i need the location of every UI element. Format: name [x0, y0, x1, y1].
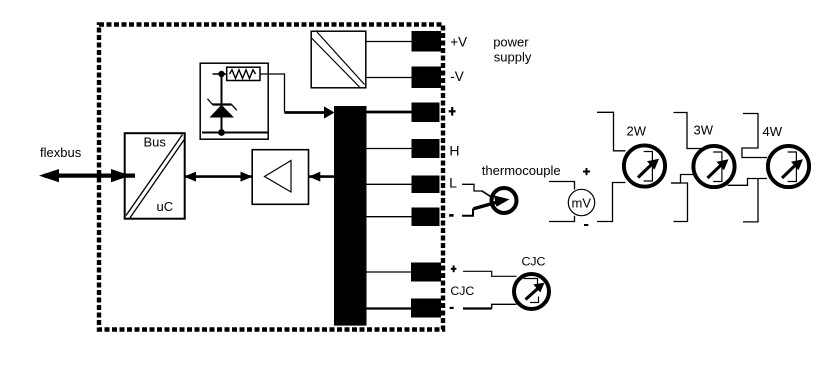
svg-text:H: H	[449, 143, 459, 159]
svg-text:-V: -V	[450, 69, 464, 84]
svg-text:supply: supply	[494, 50, 532, 65]
svg-text:mV: mV	[572, 196, 592, 211]
svg-text:uC: uC	[157, 199, 174, 214]
svg-text:+V: +V	[450, 35, 467, 50]
svg-text:thermocouple: thermocouple	[482, 163, 561, 178]
svg-text:2W: 2W	[627, 124, 647, 139]
svg-text:Bus: Bus	[144, 135, 167, 150]
svg-text:power: power	[493, 35, 529, 50]
svg-text:CJC: CJC	[522, 254, 546, 268]
svg-text:flexbus: flexbus	[40, 145, 82, 160]
svg-text:CJC: CJC	[450, 284, 474, 298]
svg-text:L: L	[449, 175, 457, 191]
svg-text:3W: 3W	[694, 123, 714, 138]
svg-text:4W: 4W	[763, 124, 783, 139]
